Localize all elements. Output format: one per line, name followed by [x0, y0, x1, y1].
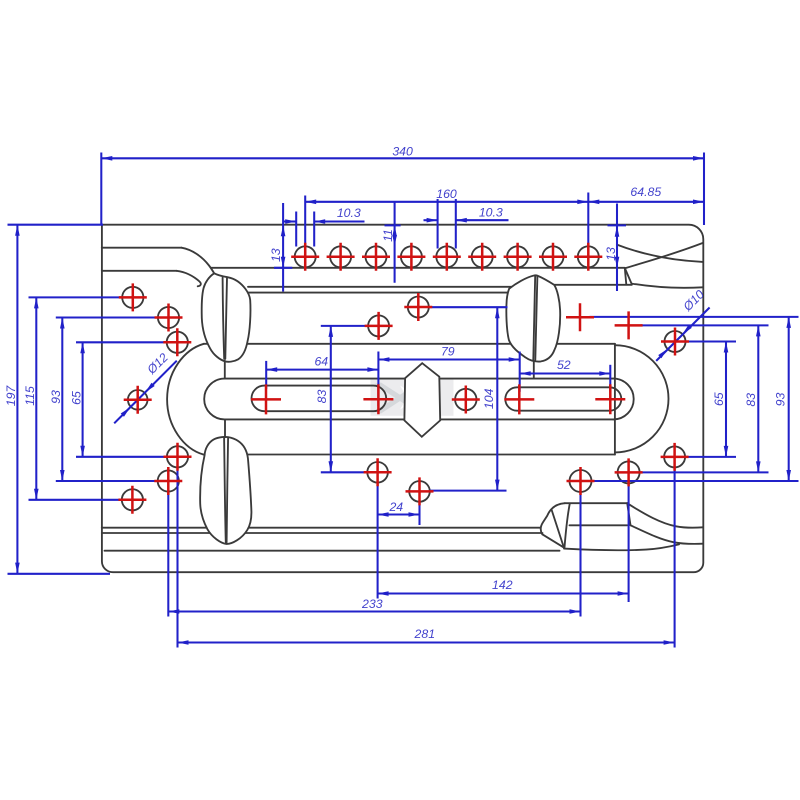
arrow leader 12 upper	[145, 383, 154, 392]
wire: petal upper-right midline b	[535, 276, 537, 360]
arrow 24 left	[378, 512, 389, 517]
centermark T9	[574, 243, 602, 271]
wire: track big left arc	[167, 344, 204, 455]
boss petal lower-left (white filled)	[200, 437, 251, 544]
dimension 142 line	[378, 592, 629, 594]
wire: track top line	[204, 343, 615, 345]
wire: elbow inner curve top-left	[177, 271, 201, 287]
wire: petal upper-left midline b	[225, 278, 227, 359]
arrow 10.3 left inner	[314, 219, 325, 224]
wire: wedge left leg top-right	[625, 268, 627, 285]
hole circle Hm	[618, 461, 640, 483]
wire: track right semicircle	[615, 345, 669, 452]
arrow 340 left	[101, 156, 112, 161]
hexagon boss center (white filled)	[404, 363, 440, 437]
centermark Hb	[365, 312, 393, 340]
dimension 64.85 line	[588, 201, 704, 203]
svg-text:24: 24	[388, 500, 403, 514]
wire: inner contour line B right	[211, 267, 625, 269]
arrow 104 bottom	[495, 480, 500, 491]
extension hole Hg down	[377, 483, 379, 599]
extension 10.3 left tangent a	[295, 212, 297, 247]
centermark T8	[539, 243, 567, 271]
arrow 65 right top	[724, 342, 729, 353]
extension hole L5 down	[176, 468, 178, 648]
arrow 11 down	[392, 235, 397, 246]
dimension 65 right line	[725, 342, 727, 457]
centermark T1	[291, 243, 319, 271]
arrow 65 right bottom	[724, 446, 729, 457]
boss petal upper-right (white filled)	[506, 275, 560, 361]
hole circle Hb	[368, 315, 389, 336]
extension hole Hm down	[628, 484, 630, 603]
centermark Hk	[661, 443, 689, 471]
hole circle Hg	[367, 462, 388, 483]
connector hole L6	[56, 480, 158, 482]
wire: wedge hypotenuse top-right	[625, 268, 632, 284]
wire: bottom inner line 1	[102, 527, 540, 529]
arrow 83 right top	[756, 325, 761, 336]
centermark L5	[164, 443, 192, 471]
arrow 13 right up	[615, 226, 620, 237]
centermark L7	[118, 486, 146, 514]
shelf right edge	[627, 503, 630, 525]
svg-text:83: 83	[315, 390, 329, 404]
extension hole Hk down	[674, 468, 676, 648]
arrow 13 left up	[281, 225, 286, 236]
wire: track right chord	[614, 344, 616, 455]
connector hole L5	[76, 456, 167, 458]
wire: band top line	[225, 378, 614, 380]
wire: bottom inner line 3	[105, 550, 560, 552]
arrow 281 left	[178, 640, 189, 645]
dimension 10.3 mid stub	[424, 219, 438, 221]
arrow 115 top	[34, 297, 39, 308]
arrow 10.3 mid outer	[427, 218, 438, 223]
arrow leader 10 lower	[658, 349, 667, 358]
arrow 83 mid top	[329, 326, 334, 337]
centermark plus P2	[615, 311, 643, 339]
tick 11	[385, 224, 401, 226]
fan right edge	[565, 503, 570, 547]
arrow 83 right bottom	[756, 461, 761, 472]
connector hole Hi right	[686, 340, 736, 342]
shelf bottom line	[570, 524, 628, 526]
svg-text:52: 52	[557, 358, 571, 372]
dimension 93 left line	[61, 318, 63, 482]
hole circle Ha	[408, 297, 429, 318]
tick 13 right	[608, 224, 627, 226]
hole circle T9	[578, 246, 599, 267]
hole circle L7	[122, 489, 143, 510]
svg-text:13: 13	[604, 247, 618, 261]
arrow 10.3 mid inner	[456, 218, 467, 223]
svg-text:233: 233	[361, 597, 383, 611]
arrow 64.85 right	[693, 200, 704, 205]
dimension 197 line	[16, 225, 18, 574]
centermark Hg	[364, 458, 392, 486]
extension 10.3 mid tangent a	[437, 199, 439, 249]
centermark L2	[155, 304, 183, 332]
arrow 142 right	[618, 591, 629, 596]
dimension 10.3 left line	[314, 220, 364, 222]
arrow 52 right	[599, 371, 610, 376]
hole circle Hk	[664, 446, 685, 467]
arrow 65 left top	[80, 342, 85, 353]
arrow 79 right	[509, 357, 520, 362]
wire: petal upper-left midline a	[223, 278, 225, 359]
svg-text:197: 197	[4, 385, 18, 407]
centermark T5	[433, 243, 461, 271]
leader diameter 12	[114, 361, 177, 424]
extension 79 right	[519, 352, 521, 392]
dimension 13 right line	[616, 204, 618, 292]
wire: band bottom line	[225, 418, 614, 420]
centermark Ha	[404, 293, 432, 321]
svg-text:83: 83	[744, 393, 758, 407]
centermark Hm	[615, 458, 643, 486]
shelf left rounded corner	[541, 503, 565, 534]
centermark Hd slot right	[363, 384, 393, 414]
connector hole L3	[76, 341, 167, 343]
hole circle T8	[543, 246, 564, 267]
arrow 281 right	[664, 640, 675, 645]
fan ray 1 bottom-right	[542, 534, 564, 547]
hole circle Hi diameter 10	[665, 331, 686, 352]
wire: swoosh curve ascending top-right	[625, 243, 703, 268]
centermark T6	[468, 243, 496, 271]
watermark panel	[371, 379, 454, 416]
svg-text:160: 160	[436, 187, 457, 201]
extension hole Hh down	[418, 502, 420, 526]
arrow 13 right down	[615, 257, 620, 268]
arrow 233 left	[168, 609, 179, 614]
svg-text:93: 93	[773, 393, 787, 407]
hole circle L2	[158, 307, 179, 328]
wire: bench line right of boss	[554, 284, 632, 286]
centermark L6	[154, 467, 182, 495]
centermark T2	[327, 243, 355, 271]
hole circle T1	[295, 246, 316, 267]
dimension 104 line	[496, 307, 498, 490]
arrow 13 left down	[281, 257, 286, 268]
centermark L3	[163, 328, 191, 356]
arrow 93 right bottom	[786, 470, 791, 481]
arrow 197 bottom	[15, 563, 20, 574]
connector 197 bottom	[8, 573, 111, 575]
wire: elbow outer curve top-left	[182, 248, 215, 274]
extension hole Hn down	[579, 492, 581, 617]
centermark L4	[124, 386, 152, 414]
wire: petal lower-left midline b	[227, 438, 229, 543]
arrow 233 right	[570, 609, 581, 614]
hole circle T7	[507, 246, 528, 267]
extension 160 left	[304, 196, 306, 269]
connector plus P1 right	[590, 316, 799, 318]
connector hole L7	[29, 499, 122, 501]
dimension 52 line	[520, 372, 611, 374]
connector 104 top	[429, 306, 508, 308]
extension 340 left	[100, 153, 102, 225]
centermark T3	[362, 243, 390, 271]
svg-text:10.3: 10.3	[479, 205, 503, 219]
hole circle L6	[158, 470, 179, 491]
hole circle Hh	[409, 481, 430, 502]
shelf top line bottom-right	[565, 502, 627, 504]
wire: petal lower-left midline a	[224, 437, 226, 542]
centermark Hn	[567, 467, 595, 495]
extension 10.3 mid tangent b	[455, 199, 457, 249]
wire: connector petal UL to band	[224, 361, 226, 379]
wire: inner contour line B left	[102, 270, 177, 272]
arrow 340 right	[693, 156, 704, 161]
fan ray 2 bottom-right	[552, 510, 564, 548]
svg-text:65: 65	[69, 391, 83, 405]
connector 83 mid top	[321, 325, 368, 327]
wire: petal upper-right midline a	[533, 276, 535, 360]
arrow 64 left	[266, 367, 277, 372]
arrow 65 left bottom	[80, 446, 85, 457]
wire: bottom inner line 3 right part	[564, 544, 679, 550]
connector 104 bottom	[430, 490, 507, 492]
hole circle L5	[167, 446, 188, 467]
dimension 64 line	[266, 369, 378, 371]
wire: band left cap	[204, 379, 224, 420]
hole circle T5	[436, 246, 457, 267]
svg-text:64.85: 64.85	[630, 185, 661, 199]
centermark Hi	[661, 328, 689, 356]
swoosh lower curve bottom-right	[631, 525, 703, 544]
arrow 64.85 left	[588, 200, 599, 205]
arrow 24 right	[409, 512, 420, 517]
slot stadium left	[252, 386, 387, 412]
centermark T4	[397, 243, 425, 271]
centermark plus P1	[566, 303, 594, 331]
hole circle L3	[167, 332, 188, 353]
arrow 197 top	[15, 225, 20, 236]
connector plus P2 right	[641, 324, 769, 326]
wire: band right cap	[613, 379, 633, 420]
tick 13 left	[274, 267, 292, 269]
connector hole L2	[56, 316, 158, 318]
svg-text:142: 142	[492, 578, 513, 592]
svg-text:340: 340	[392, 144, 413, 158]
wire: swoosh curve flat top-right	[632, 284, 703, 288]
arrow 64 right	[367, 367, 378, 372]
extension 52 right	[609, 365, 611, 392]
wire: connector band to petal LL	[224, 419, 226, 437]
connector 83 mid bottom	[321, 471, 368, 473]
wire: inner contour line A top-left	[102, 247, 182, 249]
connector 197 top	[8, 224, 104, 226]
hole circle T2	[330, 246, 351, 267]
arrow 142 left	[378, 591, 389, 596]
arrow 160 left	[305, 200, 316, 205]
dimension 10.3 mid line	[456, 219, 509, 221]
centermark Hf slot2 left	[504, 384, 534, 414]
svg-text:104: 104	[482, 388, 496, 409]
hole circle T3	[366, 246, 387, 267]
svg-text:115: 115	[23, 386, 37, 406]
dimension 10.3 left stub	[283, 220, 297, 222]
centermark Hj slot2 right	[595, 384, 625, 414]
centermark Hc slot left	[251, 384, 281, 414]
connector hole Hm right	[640, 471, 769, 473]
centermark T7	[504, 243, 532, 271]
slot stadium right	[505, 387, 621, 410]
arrow 104 top	[495, 307, 500, 318]
wire: track bottom line	[203, 454, 615, 456]
svg-text:65: 65	[712, 392, 726, 406]
connector hole Hk right	[686, 456, 736, 458]
swoosh upper curve bottom-right	[627, 503, 703, 528]
svg-text:64: 64	[314, 354, 328, 368]
wire: central ledge line lower	[248, 292, 512, 294]
svg-text:93: 93	[49, 390, 63, 404]
dimension 160 line	[305, 201, 588, 203]
svg-text:13: 13	[269, 248, 283, 262]
hole circle T4	[401, 246, 422, 267]
extension 64 left	[265, 361, 267, 389]
arrow 160 right	[577, 200, 588, 205]
dimension 65 left line	[82, 342, 84, 457]
extension 79 left	[377, 352, 379, 407]
svg-text:11: 11	[381, 229, 395, 242]
arrow 52 left	[520, 371, 531, 376]
centermark L1	[119, 283, 147, 311]
wire: bottom inner line 2	[102, 532, 543, 534]
dimension 11 line	[394, 203, 396, 283]
arrow 10.3 left outer	[285, 219, 296, 224]
connector hole Hn right	[593, 480, 799, 482]
arrow 93 right top	[786, 317, 791, 328]
hole circle He	[455, 389, 476, 410]
dimension 281 line	[178, 641, 675, 643]
arrow 79 left	[378, 357, 389, 362]
leader diameter 10	[656, 308, 709, 361]
arrow leader 12 lower	[121, 407, 130, 416]
svg-text:79: 79	[441, 344, 455, 358]
dimension 13 left line	[282, 203, 284, 292]
dimension 79 line	[378, 358, 519, 360]
extension 340 right	[703, 153, 705, 226]
centermark Hh	[406, 477, 434, 505]
arrow 83 mid bottom	[329, 461, 334, 472]
hole circle Hn	[570, 470, 592, 492]
arrow leader 10 upper	[682, 325, 691, 334]
wire: connector petal UR to band	[533, 361, 535, 379]
wire: swoosh curve descending top-right	[617, 245, 703, 262]
arrow 115 bottom	[34, 489, 39, 500]
dimension 115 line	[35, 297, 37, 499]
hole circle T6	[472, 246, 493, 267]
arrow 11 up	[392, 225, 397, 236]
svg-text:10.3: 10.3	[337, 206, 361, 220]
extension hole L6 down	[167, 492, 169, 617]
dimension 24 line	[378, 513, 420, 515]
hole circle L1	[122, 287, 143, 308]
extension 160 right	[587, 193, 589, 251]
centermark He	[452, 386, 480, 414]
dimension 83 right line	[757, 325, 759, 472]
dimension 340 line	[101, 157, 704, 159]
arrow 93 left bottom	[60, 470, 65, 481]
wire: central ledge line upper	[248, 286, 512, 288]
dimension 93 right line	[788, 317, 790, 481]
arrow 93 left top	[60, 318, 65, 329]
extension 10.3 left tangent b	[313, 212, 315, 247]
connector hole L1	[29, 296, 123, 298]
svg-text:281: 281	[414, 627, 436, 641]
dimension 83 mid line	[330, 326, 332, 472]
boss petal upper-left (white filled)	[202, 273, 251, 361]
hole circle L4 diameter 12	[128, 390, 148, 410]
part outline	[102, 225, 704, 573]
dimension 233 line	[168, 610, 580, 612]
